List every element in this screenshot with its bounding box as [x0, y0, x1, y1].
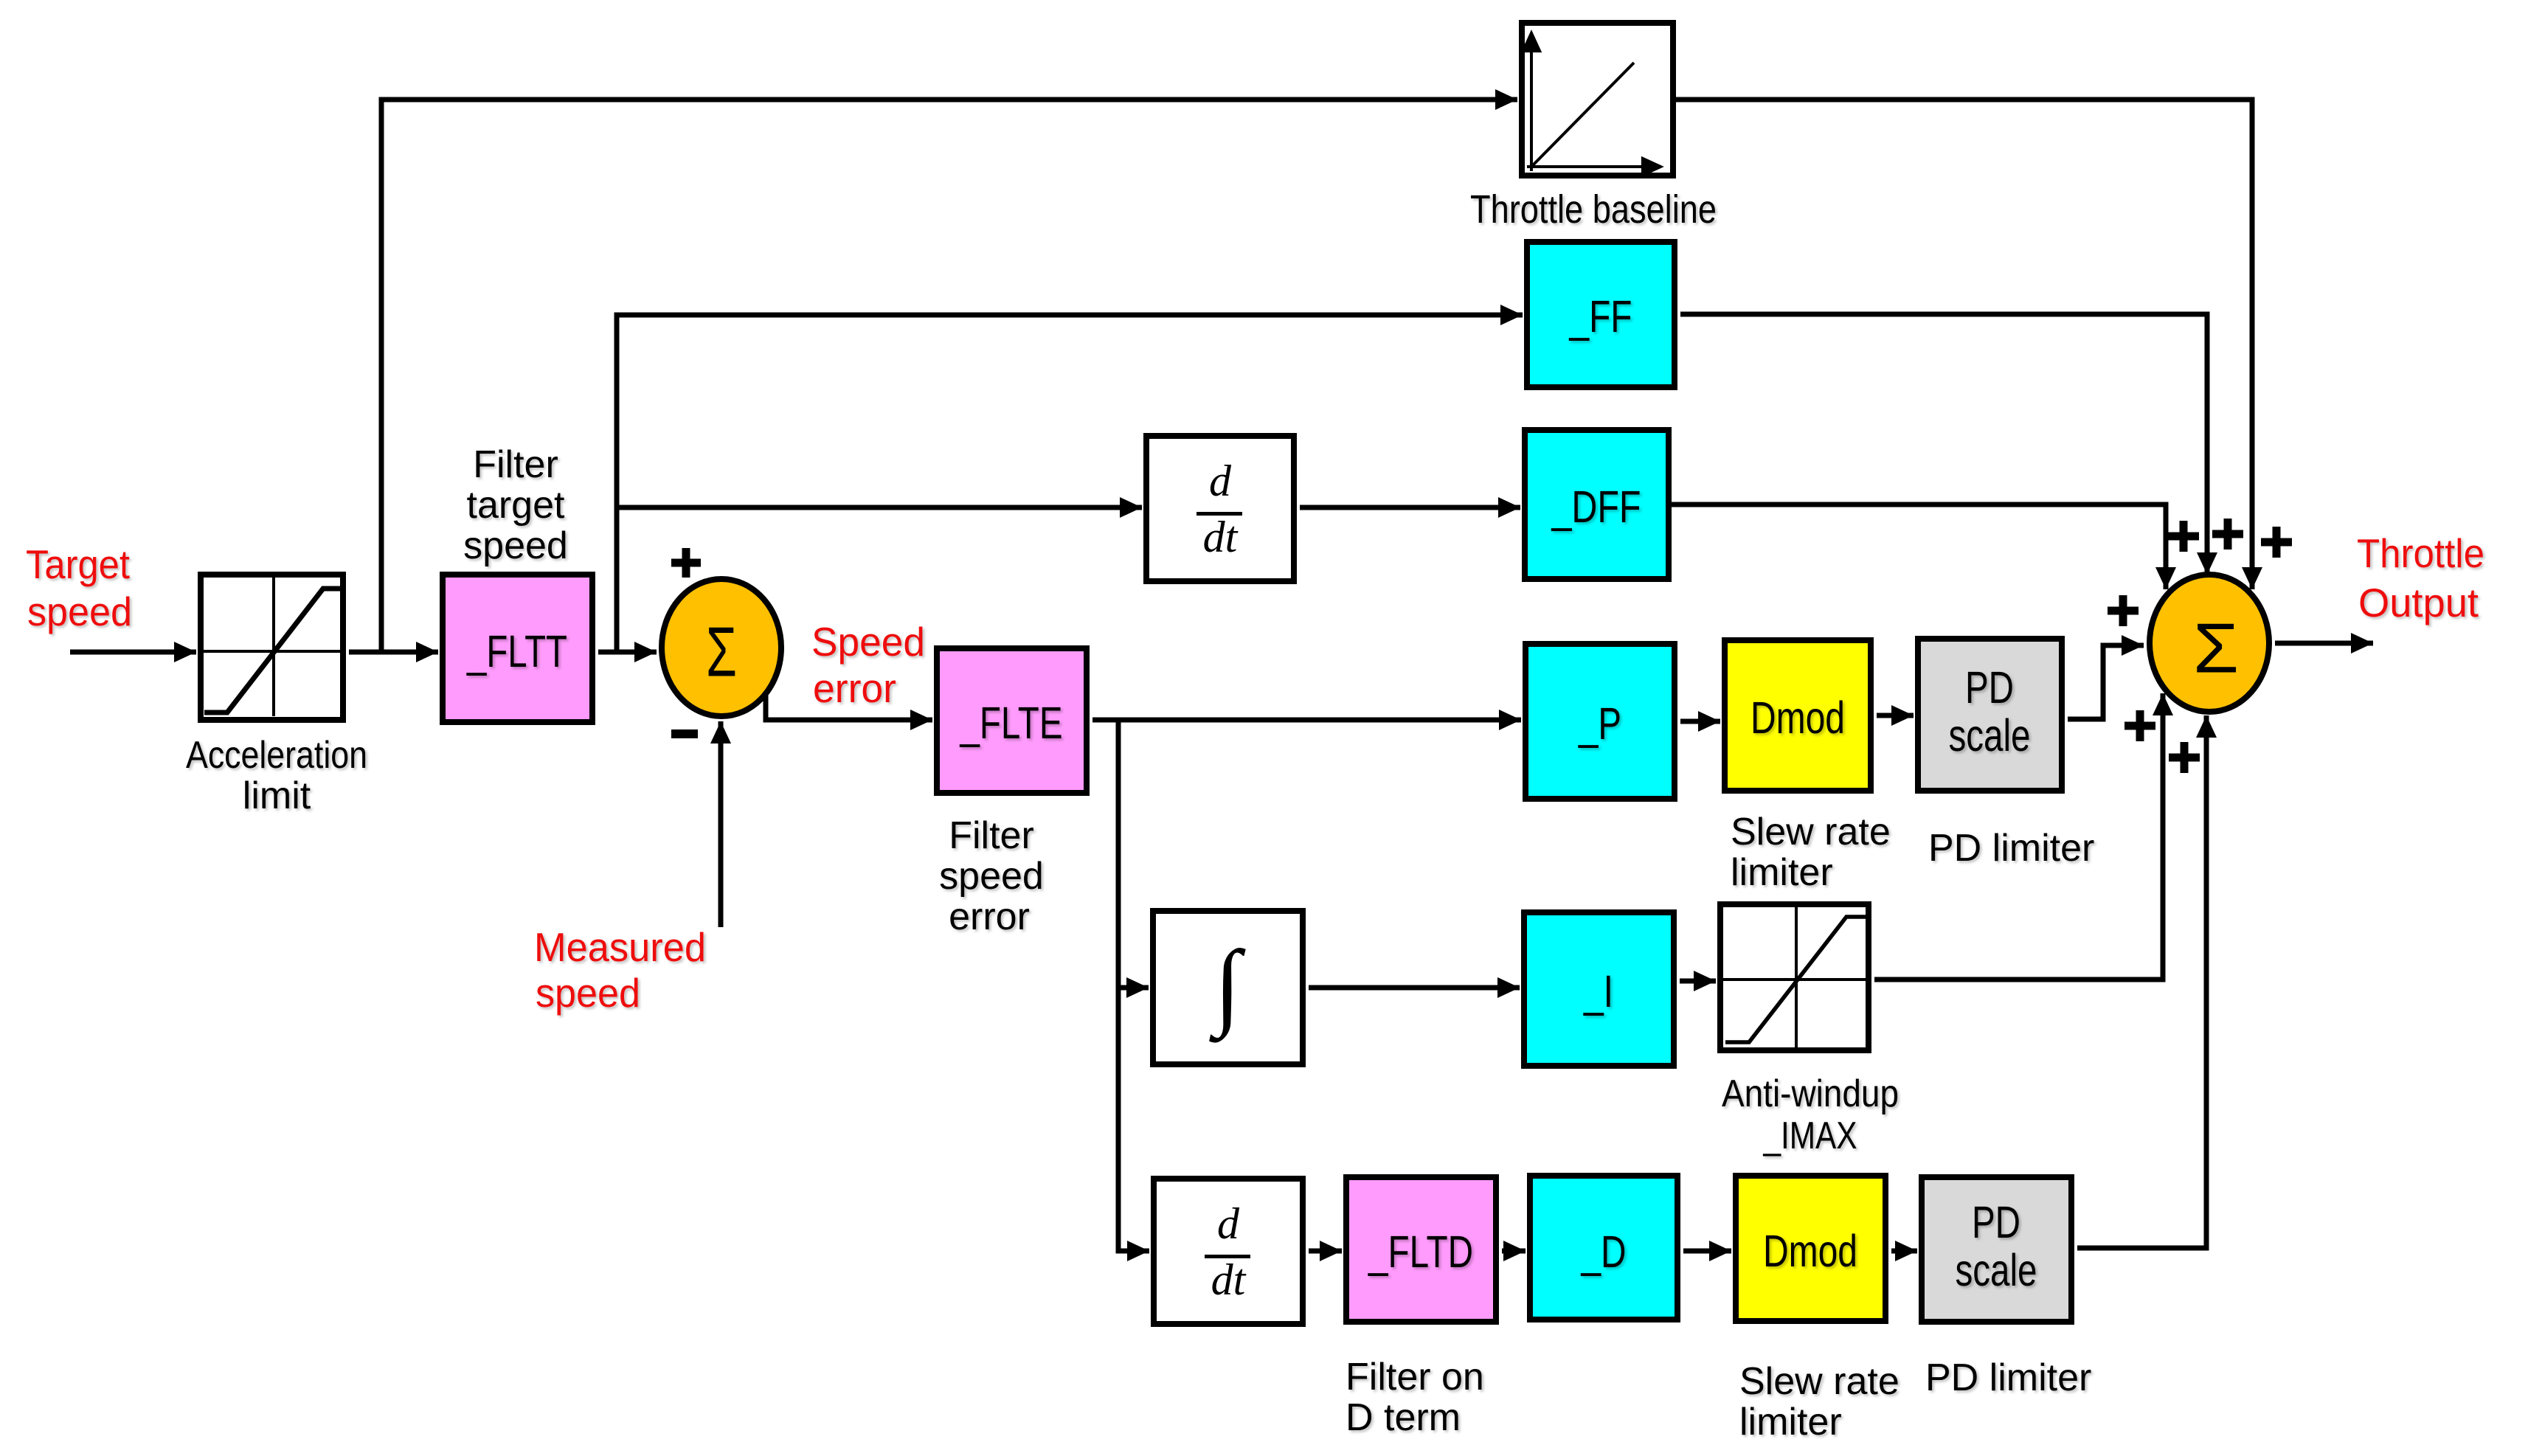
svg-text:_IMAX: _IMAX: [1763, 1114, 1857, 1157]
sign: plus above small sum: [671, 548, 701, 578]
svg-text:Filter: Filter: [949, 814, 1034, 857]
svg-text:Σ: Σ: [2193, 609, 2239, 688]
svg-text:_FF: _FF: [1569, 291, 1632, 342]
svg-text:Dmod: Dmod: [1750, 693, 1845, 743]
sign: plus for P input: [2108, 595, 2139, 626]
wire: big sum output Throttle Output: [2275, 641, 2373, 646]
svg-text:PD limiter: PD limiter: [1928, 827, 2094, 870]
svg-text:_FLTT: _FLTT: [466, 626, 567, 676]
svg-text:∫: ∫: [1209, 932, 1246, 1044]
wire: branch from _FLTT output up to _FF: [617, 315, 1523, 654]
svg-text:Filter: Filter: [473, 443, 558, 486]
svg-text:PD: PD: [1972, 1197, 2020, 1247]
svg-text:speed: speed: [463, 524, 568, 567]
svg-text:limiter: limiter: [1731, 851, 1833, 894]
svg-text:error: error: [949, 895, 1030, 938]
svg-text:scale: scale: [1956, 1245, 2037, 1295]
svg-text:Target: Target: [26, 541, 130, 587]
wire: _P to Dmod: [1680, 719, 1720, 724]
node: big summing junction: [2150, 575, 2269, 712]
svg-text:dt: dt: [1211, 1255, 1247, 1304]
block: PD scale (D row): [1922, 1177, 2071, 1322]
svg-text:Slew rate: Slew rate: [1739, 1360, 1900, 1403]
block: _FLTE filter: [937, 648, 1087, 793]
block: d/dt derivative (feed-forward): [1146, 436, 1294, 581]
wire: branch up from acceleration-limit output to Throttle baseline: [381, 100, 1517, 654]
block: _FF feed-forward gain: [1527, 242, 1675, 387]
svg-text:_FLTE: _FLTE: [960, 698, 1063, 748]
block: anti-windup saturation icon: [1720, 904, 1869, 1050]
svg-text:d: d: [1209, 457, 1232, 505]
block: _P proportional gain: [1526, 644, 1675, 799]
block: _FLTD filter: [1346, 1177, 1496, 1322]
svg-text:Dmod: Dmod: [1763, 1226, 1857, 1276]
block: _I integral gain: [1524, 912, 1674, 1066]
svg-text:_P: _P: [1578, 698, 1621, 749]
wire: _FF output down into big sum: [1680, 314, 2207, 575]
sign: plus for baseline input: [2261, 527, 2292, 558]
svg-text:_FLTD: _FLTD: [1368, 1227, 1473, 1277]
svg-text:Output: Output: [2358, 580, 2479, 625]
svg-text:Anti-windup: Anti-windup: [1722, 1072, 1899, 1115]
block: Acceleration limit (saturation icon): [201, 575, 343, 720]
svg-text:speed: speed: [536, 970, 640, 1016]
block: integrator: [1153, 911, 1303, 1064]
svg-text:Throttle baseline: Throttle baseline: [1470, 187, 1717, 232]
wire: _DFF output down into big sum: [1672, 505, 2166, 589]
wire: integrator to _I: [1309, 985, 1520, 991]
svg-text:Acceleration: Acceleration: [186, 734, 367, 777]
wire: branch down from _FLTE output to derivative row: [1118, 720, 1149, 1251]
svg-text:Slew rate: Slew rate: [1731, 811, 1891, 853]
svg-text:Σ: Σ: [706, 613, 737, 692]
svg-text:d: d: [1217, 1199, 1240, 1248]
svg-text:limit: limit: [243, 774, 311, 817]
svg-text:Measured: Measured: [534, 924, 706, 970]
svg-text:_DFF: _DFF: [1551, 482, 1641, 532]
sign: plus for FF input: [2212, 519, 2243, 550]
svg-text:_D: _D: [1581, 1227, 1627, 1277]
wire: Target speed input into Acceleration limit: [70, 650, 196, 655]
wire: Acceleration limit to _FLTT: [349, 650, 438, 655]
svg-text:Filter on: Filter on: [1346, 1356, 1484, 1398]
svg-text:scale: scale: [1949, 710, 2031, 760]
block: Throttle baseline (curve icon): [1522, 23, 1673, 176]
svg-text:error: error: [813, 665, 896, 711]
svg-text:limiter: limiter: [1739, 1401, 1842, 1443]
block: d/dt derivative (D row): [1154, 1179, 1303, 1324]
block: _DFF derivative feed-forward gain: [1525, 430, 1669, 579]
svg-text:speed: speed: [939, 855, 1044, 898]
sign: minus below small sum: [671, 729, 698, 738]
svg-text:target: target: [467, 484, 566, 527]
wire: _FLTT output into small sum: [598, 650, 657, 655]
wire: _FLTD to _D: [1502, 1249, 1526, 1254]
wire: Dmod to PD scale: [1877, 713, 1914, 718]
block: _D derivative gain: [1530, 1176, 1677, 1320]
svg-text:D term: D term: [1346, 1396, 1461, 1439]
block: _FLTT filter: [443, 575, 592, 722]
block: PD scale (P row): [1918, 639, 2062, 791]
svg-text:PD limiter: PD limiter: [1925, 1356, 2091, 1399]
wire: branch from _FLTT output to d/dt of feed-forward: [617, 505, 1142, 510]
wire: d/dt to _FLTD: [1309, 1249, 1342, 1254]
wire: d/dt to _DFF: [1300, 505, 1520, 510]
wire: stub into integrator: [1118, 985, 1149, 991]
sign: plus for DFF input: [2168, 521, 2199, 552]
svg-text:Speed: Speed: [811, 619, 925, 665]
block: Dmod slew rate limiter (P row): [1725, 640, 1871, 791]
wire: _FLTE output into _P: [1092, 718, 1521, 723]
svg-text:dt: dt: [1203, 513, 1239, 561]
node: small summing junction: [662, 579, 781, 716]
wire: _I to anti-windup limiter: [1680, 979, 1716, 984]
wire: Dmod to PD scale (bottom): [1891, 1249, 1917, 1254]
wire: _D to Dmod (bottom): [1683, 1249, 1731, 1254]
wire: anti-windup output up into big sum: [1874, 693, 2163, 980]
block: Dmod slew rate limiter (D row): [1736, 1176, 1885, 1321]
svg-text:Throttle: Throttle: [2357, 530, 2484, 576]
wire: small sum output into _FLTE: [766, 695, 932, 720]
wire: PD scale output into big sum (left): [2068, 645, 2144, 719]
svg-text:speed: speed: [27, 589, 132, 634]
wire: bottom PD scale output up into big sum: [2077, 715, 2206, 1248]
sign: plus for D input: [2169, 742, 2200, 773]
svg-text:PD: PD: [1965, 662, 2014, 713]
svg-text:_I: _I: [1583, 966, 1613, 1016]
wire: measured speed arrow up into small sum: [718, 721, 724, 927]
wire: Throttle baseline output down into big sum: [1676, 100, 2252, 589]
sign: plus for I input: [2124, 710, 2155, 741]
